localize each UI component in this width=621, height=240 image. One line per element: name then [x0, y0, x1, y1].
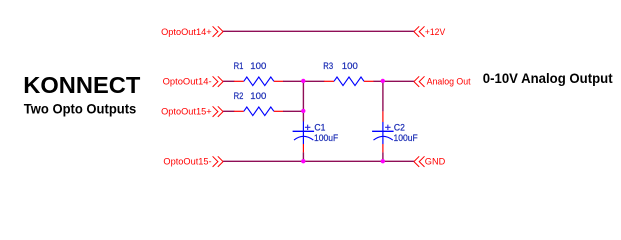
- svg-text:R1: R1: [234, 61, 244, 71]
- wire R2 to node B: [283, 110, 303, 112]
- svg-text:R3: R3: [323, 61, 333, 71]
- resistor R1 pin left: [234, 80, 244, 82]
- junction node B: [301, 109, 305, 113]
- capacitor C1 plate: [293, 130, 315, 132]
- wire C2 to ground rail: [382, 152, 384, 161]
- svg-text:R2: R2: [234, 91, 244, 101]
- capacitor C2 pin top: [382, 111, 384, 122]
- port GND chevron: [414, 156, 425, 167]
- port +12V chevron: [414, 26, 425, 37]
- port Analog Out chevron: [414, 76, 425, 87]
- svg-text:100uF: 100uF: [394, 133, 418, 143]
- resistor R2 body: [244, 107, 274, 116]
- capacitor C1 lead top: [302, 122, 304, 132]
- wire OptoOut15+ to R2: [223, 110, 234, 112]
- capacitor C2 pin bottom: [382, 144, 384, 152]
- svg-text:OptoOut15-: OptoOut15-: [163, 157, 211, 167]
- port OptoOut15- chevron: [213, 156, 224, 167]
- svg-text:Two Opto Outputs: Two Opto Outputs: [24, 100, 137, 116]
- capacitor C2 plate: [372, 130, 394, 132]
- resistor R2 pin right: [274, 110, 284, 112]
- port OptoOut15+ chevron: [213, 106, 224, 117]
- junction node A: [301, 79, 305, 83]
- capacitor C2 lead top: [382, 122, 384, 131]
- resistor R3 pin right: [364, 80, 374, 82]
- capacitor C1 lead bottom: [302, 131, 304, 144]
- svg-text:100: 100: [250, 61, 266, 71]
- svg-text:100uF: 100uF: [314, 133, 338, 143]
- capacitor C1 curved plate: [294, 136, 313, 140]
- svg-text:KONNECT: KONNECT: [23, 72, 140, 98]
- resistor R2 pin left: [234, 110, 244, 112]
- svg-text:C1: C1: [314, 123, 325, 133]
- capacitor C2 curved plate: [374, 136, 393, 140]
- wire R3 to Analog Out: [374, 80, 414, 82]
- port OptoOut14- chevron: [213, 76, 224, 87]
- wire node A vertical: [302, 81, 304, 121]
- resistor R1 pin right: [274, 80, 284, 82]
- resistor R3 pin left: [324, 80, 334, 82]
- capacitor C2 lead bottom: [382, 131, 384, 144]
- wire node C vertical: [382, 81, 384, 111]
- resistor R1 body: [244, 77, 274, 86]
- svg-text:0-10V Analog Output: 0-10V Analog Output: [483, 70, 613, 86]
- junction C2 ground: [381, 159, 385, 163]
- wire R1 to node A: [283, 80, 324, 82]
- wire +12V rail: [223, 30, 414, 32]
- resistor R3 body: [334, 77, 364, 86]
- wire ground rail: [223, 160, 414, 162]
- capacitor C1 pin bottom: [302, 144, 304, 152]
- wire C1 to ground rail: [302, 152, 304, 161]
- capacitor C1 plus sign: [305, 125, 311, 130]
- svg-text:100: 100: [342, 61, 358, 71]
- svg-text:GND: GND: [425, 157, 446, 167]
- svg-text:OptoOut14-: OptoOut14-: [163, 77, 212, 87]
- wire OptoOut14- to R1: [223, 80, 234, 82]
- junction node C: [381, 79, 385, 83]
- svg-text:OptoOut14+: OptoOut14+: [161, 27, 212, 37]
- junction C1 ground: [301, 159, 305, 163]
- svg-text:Analog Out: Analog Out: [427, 77, 471, 87]
- svg-text:100: 100: [250, 91, 266, 101]
- capacitor C2 plus sign: [385, 125, 391, 130]
- svg-text:C2: C2: [394, 123, 405, 133]
- svg-text:+12V: +12V: [425, 27, 446, 37]
- svg-text:OptoOut15+: OptoOut15+: [161, 107, 212, 117]
- port OptoOut14+ chevron: [213, 26, 224, 37]
